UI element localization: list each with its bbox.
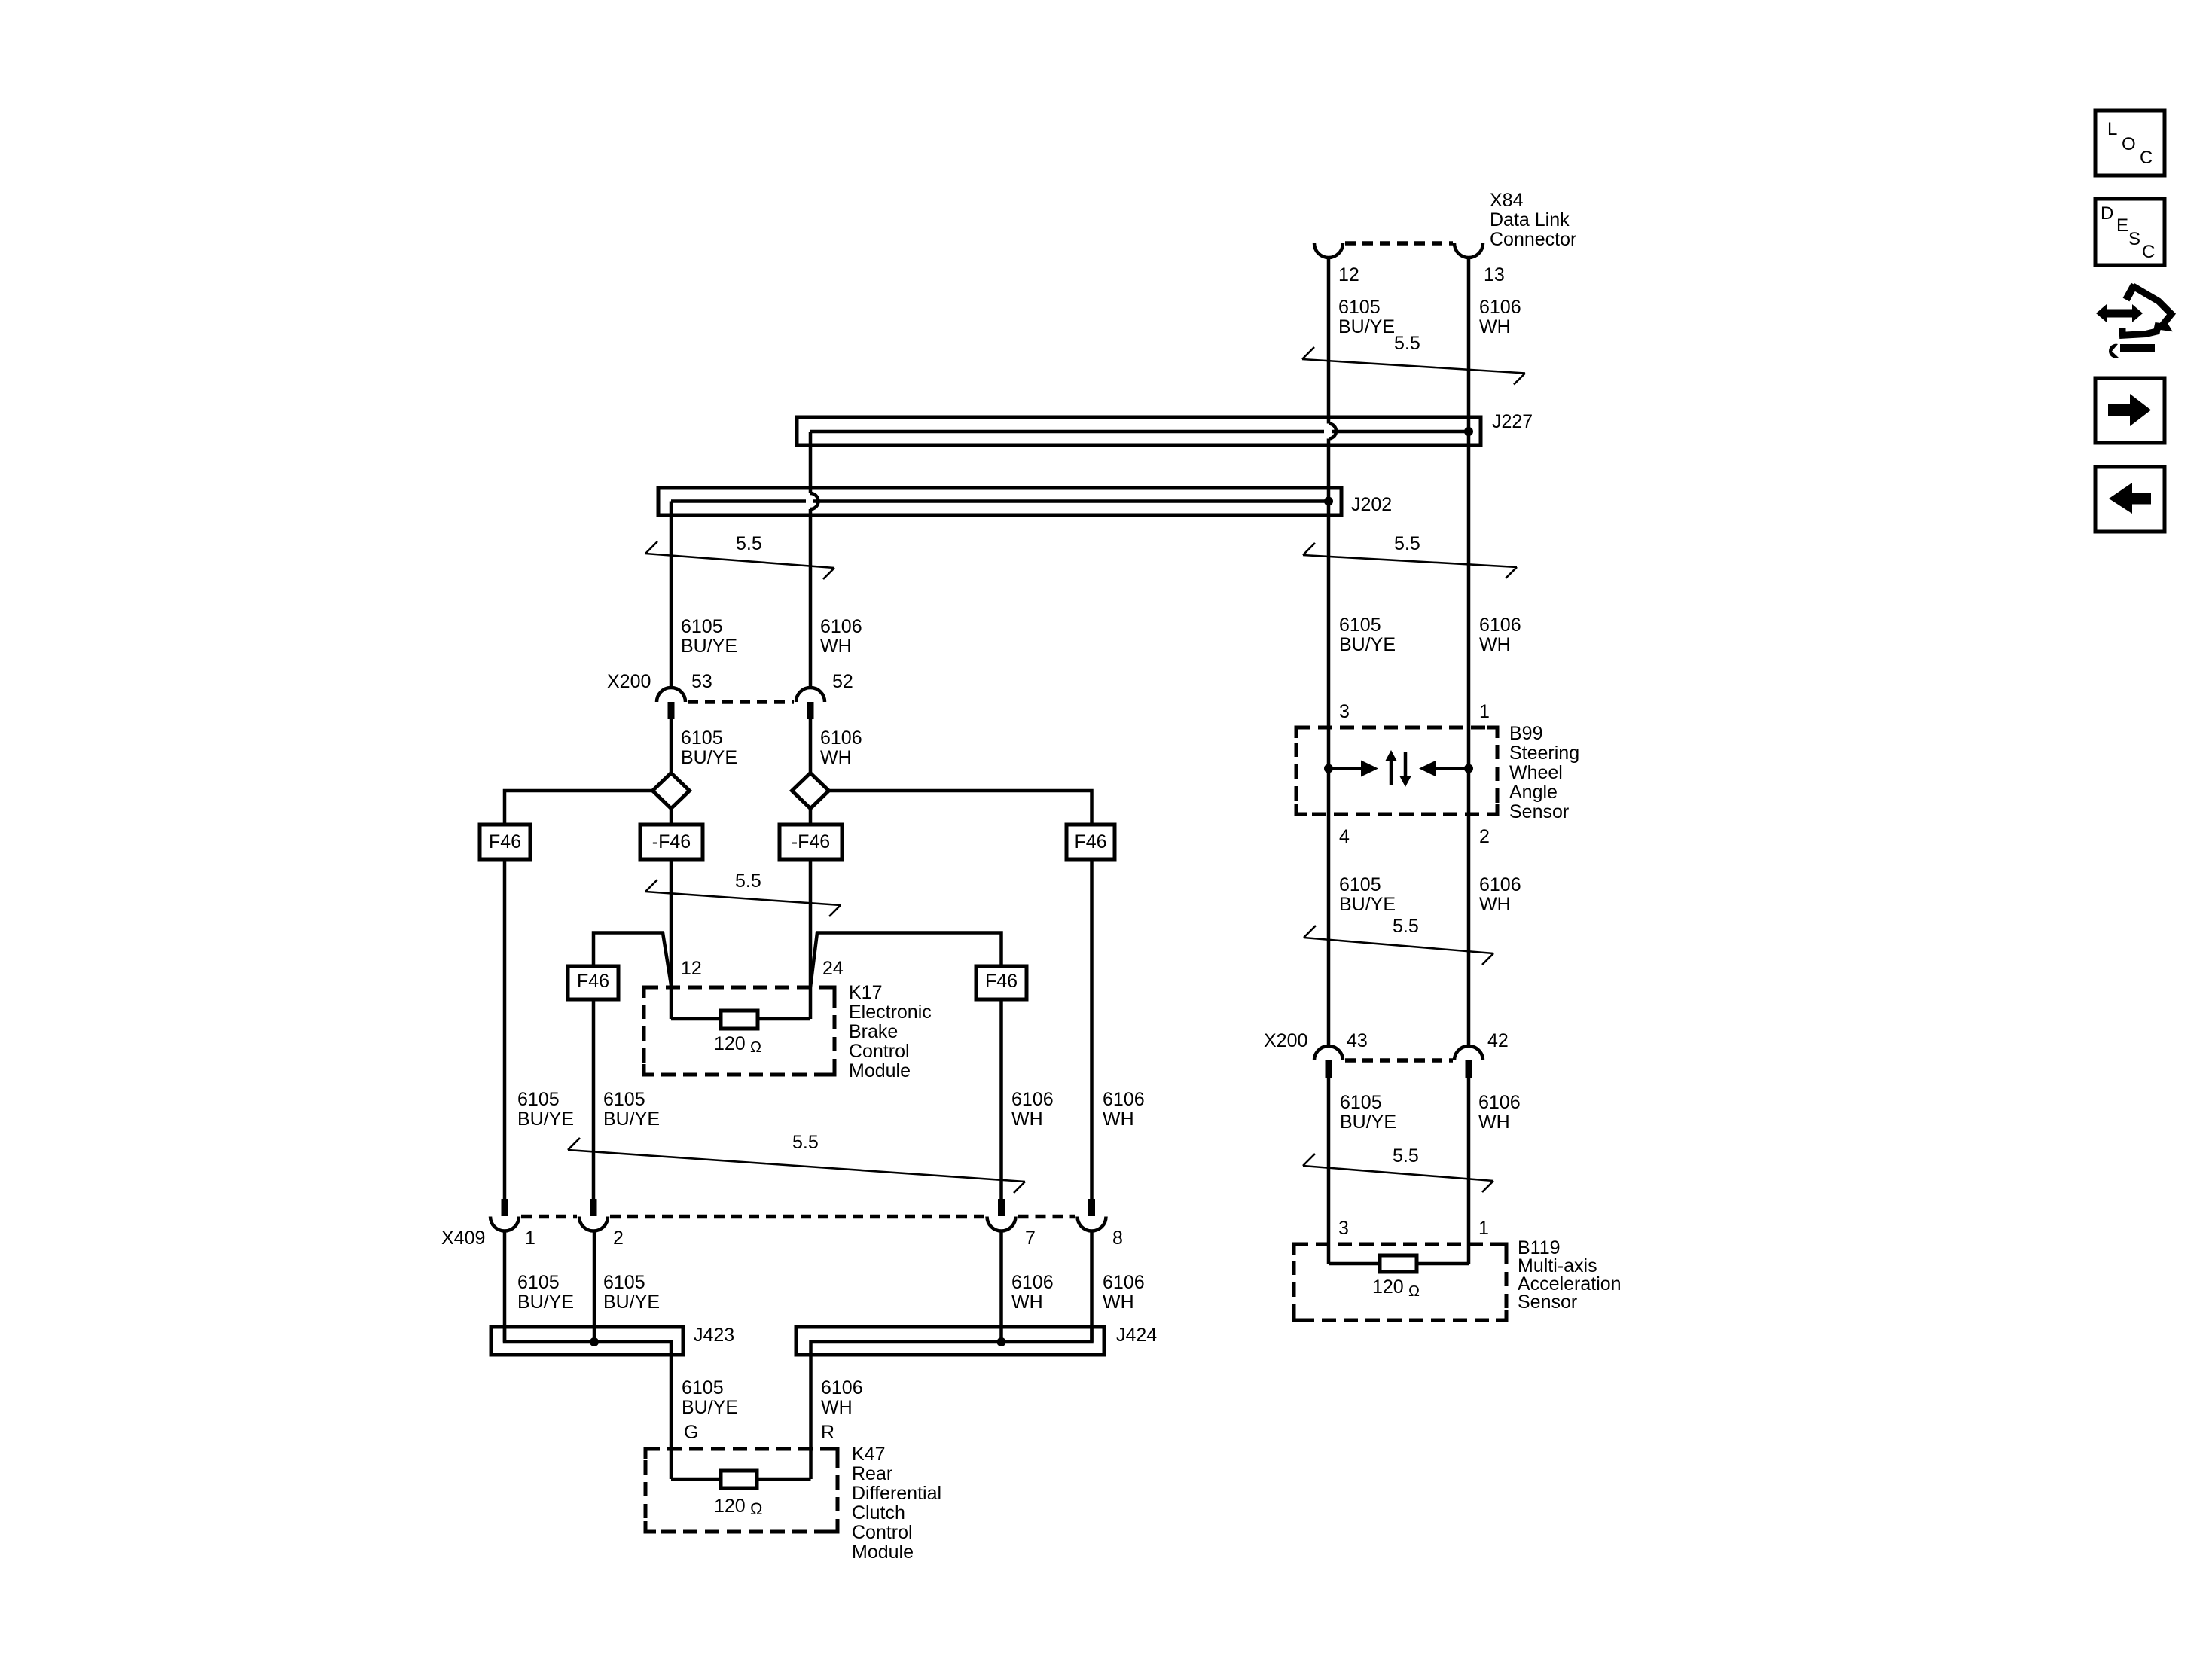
svg-text:D: D: [2101, 203, 2113, 224]
connector X200 terminal arc pin 53: [657, 688, 685, 702]
wire label 6106 WH (below X409 pin 8): [1103, 1272, 1145, 1313]
svg-text:BU/YE: BU/YE: [1338, 316, 1395, 337]
wire label 6105 BU/YE (left, above X200 53): [681, 616, 737, 657]
svg-text:52: 52: [832, 671, 853, 692]
connector X409 male pin 8: [1088, 1199, 1095, 1216]
gauge label 5.5 (X84 pair): [1394, 333, 1420, 354]
svg-text:7: 7: [1025, 1228, 1036, 1249]
svg-text:5.5: 5.5: [792, 1132, 819, 1153]
nav icon data-link/wrench: [2096, 285, 2171, 358]
wire 6105 G from J423 to K47: [670, 1355, 673, 1479]
pin number 53: [691, 671, 712, 692]
connector X409 male pin 2: [590, 1199, 597, 1216]
pin number 3 (B99): [1339, 701, 1350, 722]
svg-text:8: 8: [1112, 1228, 1123, 1249]
svg-text:C: C: [2142, 242, 2155, 262]
svg-text:2: 2: [613, 1228, 624, 1249]
svg-text:BU/YE: BU/YE: [681, 747, 737, 768]
wire label 6106 WH (X200 to B119): [1478, 1092, 1521, 1133]
junction dot B99 wire 1-2: [1464, 764, 1473, 773]
svg-text:6106: 6106: [1479, 615, 1521, 636]
wire label 6106 WH (above X409 pin 8): [1103, 1089, 1145, 1130]
splice bus J424 internal conductor: [811, 1327, 1092, 1355]
connector X200 dashed link line 43-42: [1345, 1058, 1453, 1063]
label J227: [1492, 411, 1533, 432]
connector X84 terminal arc pin 13: [1454, 243, 1483, 258]
wire from left diamond down to -F46: [670, 809, 673, 825]
svg-text:Control: Control: [849, 1041, 910, 1062]
svg-text:5.5: 5.5: [736, 533, 762, 554]
label B99 Steering Wheel Angle Sensor: [1509, 723, 1579, 822]
pin number 12 (K17): [681, 958, 702, 979]
pin number 42: [1487, 1030, 1509, 1051]
pin number 4 (B99): [1339, 826, 1350, 847]
svg-text:Control: Control: [852, 1522, 913, 1543]
svg-text:13: 13: [1484, 264, 1505, 285]
label F46 lower-left: [577, 971, 609, 992]
svg-text:G: G: [684, 1422, 698, 1443]
svg-text:43: 43: [1347, 1030, 1368, 1051]
gauge label 5.5 (below -F46): [735, 871, 761, 892]
svg-text:Ω: Ω: [1408, 1283, 1420, 1300]
wire X409 pin1 to J423: [503, 1231, 507, 1343]
label -F46 left: [652, 831, 691, 852]
wire label 6105 BU/YE (X200 to B119): [1340, 1092, 1396, 1133]
sensor B119 dashed outline: [1294, 1244, 1506, 1320]
pin number 1 (X409): [525, 1228, 535, 1249]
svg-text:3: 3: [1338, 1218, 1349, 1239]
wire size marker 5.5 (left pair below J202): [645, 541, 834, 579]
svg-text:6106: 6106: [1478, 1092, 1521, 1113]
terminating resistor inside K47: [671, 1471, 811, 1488]
svg-text:BU/YE: BU/YE: [1340, 1112, 1396, 1133]
label F46 lower-right: [985, 971, 1018, 992]
svg-text:K17: K17: [849, 982, 882, 1003]
label F46 outer-right: [1074, 831, 1106, 852]
pin number 43: [1347, 1030, 1368, 1051]
svg-text:X200: X200: [607, 671, 651, 692]
connector X200 male pin 52: [807, 702, 814, 719]
wire label 6106 WH (left, above X200 52): [820, 616, 862, 657]
svg-text:Ω: Ω: [750, 1039, 761, 1056]
pin number 12 (X84): [1338, 264, 1359, 285]
svg-text:O: O: [2122, 134, 2136, 154]
svg-text:BU/YE: BU/YE: [603, 1109, 660, 1130]
svg-text:WH: WH: [820, 747, 852, 768]
svg-text:E: E: [2116, 215, 2128, 236]
label B119 Multi-axis Acceleration Sensor: [1518, 1237, 1622, 1313]
sensor B99 dashed outline: [1296, 727, 1497, 814]
svg-text:6106: 6106: [821, 1377, 863, 1398]
svg-text:B99: B99: [1509, 723, 1542, 744]
gauge label 5.5 (above X409): [792, 1132, 819, 1153]
B99 internal down arrow: [1399, 752, 1411, 787]
value label 120 ohm (B119): [1372, 1276, 1420, 1300]
svg-text:5.5: 5.5: [1393, 916, 1419, 937]
wire label 6106 WH R (J424 to K47): [821, 1377, 863, 1443]
splice diamond on wire 6106: [792, 773, 829, 809]
B99 internal up arrow: [1385, 750, 1397, 785]
pin number 8 (X409): [1112, 1228, 1123, 1249]
svg-text:6105: 6105: [1339, 615, 1381, 636]
svg-text:6105: 6105: [681, 727, 723, 749]
wire from lower-right F46 down to X409 pin 7: [999, 999, 1003, 1199]
svg-text:6106: 6106: [1479, 297, 1521, 318]
svg-text:Electronic: Electronic: [849, 1002, 932, 1023]
wire from outer-left F46 down to X409 pin 1: [503, 859, 507, 1199]
svg-text:Module: Module: [849, 1060, 911, 1081]
gauge label 5.5 (left pair): [736, 533, 762, 554]
wire label 6105 BU/YE (above X409 pin 2): [603, 1089, 660, 1130]
nav icon box LOC: [2095, 111, 2165, 175]
wire size marker 5.5 (below -F46 pair): [645, 880, 841, 916]
connector X409 terminal arc pin 8: [1078, 1217, 1106, 1231]
connector X84 dashed link line: [1345, 241, 1453, 246]
svg-text:WH: WH: [1103, 1292, 1134, 1313]
connector X409 male pin 1: [502, 1199, 508, 1216]
svg-text:53: 53: [691, 671, 712, 692]
svg-text:C: C: [2140, 148, 2153, 168]
splice bus J202 internal conductor: [671, 499, 1329, 503]
wire 6106 right branch J227 to B99 pin 1 and on to X200 42: [1467, 432, 1471, 1046]
svg-text:WH: WH: [1479, 894, 1511, 915]
svg-text:1: 1: [1478, 1218, 1489, 1239]
module K17 dashed outline: [644, 987, 834, 1075]
svg-text:F46: F46: [985, 971, 1018, 992]
svg-text:WH: WH: [821, 1397, 853, 1418]
svg-text:1: 1: [525, 1228, 535, 1249]
svg-text:120: 120: [1372, 1276, 1404, 1298]
wire size marker 5.5 (X84 pair): [1302, 347, 1525, 385]
branch wire from left diamond to outer-left fuse F46: [505, 791, 653, 825]
value label 120 ohm (K17): [714, 1033, 761, 1056]
fuse box F46 lower-right: [976, 966, 1027, 999]
label connector X200 (43/42): [1264, 1030, 1307, 1051]
svg-text:6106: 6106: [820, 727, 862, 749]
wire X409 pin8 to J424: [1090, 1231, 1094, 1343]
wire size marker 5.5 (above B119): [1303, 1154, 1493, 1192]
svg-text:WH: WH: [1011, 1109, 1043, 1130]
wire label 6106 WH (below X200 52): [820, 727, 862, 768]
svg-text:6105: 6105: [517, 1089, 560, 1110]
wire size marker 5.5 (right pair below J202): [1303, 543, 1517, 578]
wire 6105 X200 43 down to B119 pin 3: [1327, 1078, 1331, 1264]
svg-text:6106: 6106: [1103, 1089, 1145, 1110]
connector X200 terminal arc pin 52: [796, 688, 825, 702]
svg-text:6106: 6106: [1479, 874, 1521, 895]
svg-text:Sensor: Sensor: [1509, 801, 1569, 822]
junction dot J227 to wire 6106: [1464, 427, 1473, 436]
wire 6106 WH from X84 pin 13 down to J227: [1467, 258, 1471, 432]
svg-text:K47: K47: [852, 1444, 885, 1465]
fuse box F46 lower-left: [568, 966, 618, 999]
branch wire from right diamond to outer-right fuse F46: [829, 791, 1092, 825]
connector X409 terminal arc pin 2: [579, 1217, 608, 1231]
svg-text:6105: 6105: [1340, 1092, 1382, 1113]
label F46 outer-left: [489, 831, 521, 852]
wire 6106 R from J424 to K47: [809, 1355, 813, 1479]
wire label 6106 WH (above X409 pin 7): [1011, 1089, 1054, 1130]
wire label 6105 BU/YE (below X409 pin 2): [603, 1272, 660, 1313]
label X84 Data Link Connector: [1490, 190, 1576, 250]
junction dot J424: [997, 1337, 1006, 1346]
svg-text:Ω: Ω: [750, 1499, 762, 1518]
branch wire splice into K17 pin 12 (funnel): [593, 933, 672, 988]
svg-text:J423: J423: [694, 1325, 734, 1346]
fuse box -F46 on wire 6105: [640, 825, 703, 859]
svg-text:Connector: Connector: [1490, 229, 1576, 250]
wire 6105 BU/YE from X200 53 to diamond: [670, 719, 673, 773]
wire 6105 BU/YE from X84 pin 12 down to J202: [1327, 258, 1331, 502]
svg-text:42: 42: [1487, 1030, 1509, 1051]
connector X200 terminal arc pin 42: [1454, 1046, 1483, 1060]
svg-text:6105: 6105: [603, 1089, 645, 1110]
junction dot B99 wire 3-4: [1324, 764, 1333, 773]
svg-text:L: L: [2107, 119, 2117, 139]
wire 6106 WH left drop from J227 to J202: [809, 432, 813, 688]
wire 6106 from -F46 down to K17 pin 24: [809, 859, 813, 1019]
svg-text:Brake: Brake: [849, 1021, 898, 1042]
splice bus J423 internal conductor: [505, 1327, 671, 1355]
module K47 dashed outline: [645, 1449, 838, 1532]
connector X409 terminal arc pin 1: [490, 1217, 519, 1231]
gauge label 5.5 (right pair): [1394, 533, 1420, 554]
wire X409 pin7 to J424: [999, 1231, 1003, 1343]
wire 6105 BU/YE left drop from J202 to X200 pin 53: [670, 502, 673, 688]
svg-text:6105: 6105: [1339, 874, 1381, 895]
svg-text:12: 12: [681, 958, 702, 979]
terminating resistor inside K17: [671, 1011, 810, 1029]
pin number 24 (K17): [822, 958, 844, 979]
svg-text:6106: 6106: [1011, 1272, 1054, 1293]
svg-text:4: 4: [1339, 826, 1350, 847]
svg-text:BU/YE: BU/YE: [517, 1292, 574, 1313]
wire label 6105 BU/YE (right, above B99): [1339, 615, 1396, 655]
svg-text:Wheel: Wheel: [1509, 762, 1563, 783]
pin number 52: [832, 671, 853, 692]
svg-text:120: 120: [714, 1496, 746, 1517]
wire X409 pin2 to J423: [593, 1231, 596, 1343]
svg-text:5.5: 5.5: [1393, 1145, 1419, 1167]
junction dot J202 to wire 6105: [1324, 497, 1333, 506]
gauge label 5.5 (above B119): [1393, 1145, 1419, 1167]
pin number 1 (B119): [1478, 1218, 1489, 1239]
wire label 6105 BU/YE G (J423 to K47): [682, 1377, 738, 1443]
splice bus J227 outline: [797, 417, 1481, 445]
wire hop of 6105 over J227 bus line: [1329, 424, 1336, 439]
B99 internal left-pointing arrow: [1419, 761, 1469, 777]
svg-text:Differential: Differential: [852, 1483, 941, 1504]
svg-text:WH: WH: [1103, 1109, 1134, 1130]
svg-text:WH: WH: [1479, 634, 1511, 655]
svg-text:-F46: -F46: [792, 831, 830, 852]
svg-text:6106: 6106: [1011, 1089, 1054, 1110]
svg-text:6105: 6105: [517, 1272, 560, 1293]
svg-text:X200: X200: [1264, 1030, 1307, 1051]
svg-text:6105: 6105: [681, 616, 723, 637]
wire label 6106 WH (below X409 pin 7): [1011, 1272, 1054, 1313]
nav icon box arrow-right: [2095, 378, 2165, 443]
svg-text:X409: X409: [441, 1228, 485, 1249]
wire from right diamond down to -F46: [809, 809, 813, 825]
svg-text:F46: F46: [1074, 831, 1106, 852]
svg-text:24: 24: [822, 958, 844, 979]
svg-text:Module: Module: [852, 1542, 914, 1563]
svg-text:5.5: 5.5: [1394, 333, 1420, 354]
wire from lower-left F46 down to X409 pin 2: [592, 999, 596, 1199]
wire from outer-right F46 down to X409 pin 8: [1090, 859, 1094, 1199]
svg-text:Sensor: Sensor: [1518, 1292, 1577, 1313]
pin number 1 (B99): [1479, 701, 1490, 722]
pin number 7 (X409): [1025, 1228, 1036, 1249]
label -F46 right: [792, 831, 830, 852]
svg-text:R: R: [821, 1422, 834, 1443]
B99 internal right-pointing arrow: [1329, 761, 1378, 777]
svg-text:12: 12: [1338, 264, 1359, 285]
svg-text:WH: WH: [1011, 1292, 1043, 1313]
nav icon box arrow-left: [2095, 467, 2165, 532]
wire label 6105 BU/YE (above X409 pin 1): [517, 1089, 574, 1130]
wire 6105 right branch J202 to B99 pin 3 and on to X200 43: [1327, 502, 1331, 1047]
wire 6106 WH from X200 52 to diamond: [809, 719, 813, 773]
svg-text:F46: F46: [489, 831, 521, 852]
pin number 3 (B119): [1338, 1218, 1349, 1239]
svg-text:2: 2: [1479, 826, 1490, 847]
label J202: [1351, 494, 1392, 515]
terminating resistor inside B119: [1329, 1255, 1469, 1272]
svg-text:WH: WH: [1479, 316, 1511, 337]
value label 120 ohm (K47): [714, 1496, 762, 1518]
svg-text:WH: WH: [820, 636, 852, 657]
svg-text:5.5: 5.5: [1394, 533, 1420, 554]
wire label 6105 BU/YE (right, B99 to X200): [1339, 874, 1396, 915]
svg-text:6105: 6105: [1338, 297, 1381, 318]
splice bus J227 internal conductor: [810, 430, 1469, 434]
pin number 2 (X409): [613, 1228, 624, 1249]
wire 6105 from -F46 down to K17 pin 12: [670, 859, 673, 1019]
svg-text:6106: 6106: [1103, 1272, 1145, 1293]
splice bus J424 outline: [796, 1327, 1104, 1355]
svg-text:BU/YE: BU/YE: [1339, 634, 1396, 655]
label K17 Electronic Brake Control Module: [849, 982, 932, 1081]
svg-text:S: S: [2128, 229, 2140, 249]
wire label 6106 WH (right, above B99): [1479, 615, 1521, 655]
nav icon box DESC: [2095, 199, 2165, 265]
wire hop of 6106 over J202 bus line: [810, 493, 818, 509]
fuse box F46 outer-right: [1066, 825, 1115, 859]
wire label 6105 BU/YE (below X84): [1338, 297, 1395, 337]
label connector X409: [441, 1228, 485, 1249]
svg-text:Angle: Angle: [1509, 782, 1558, 803]
svg-text:J227: J227: [1492, 411, 1533, 432]
svg-text:J424: J424: [1116, 1325, 1157, 1346]
connector X200 terminal arc pin 43: [1314, 1046, 1343, 1060]
connector X200 dashed link line 53-52: [688, 700, 794, 704]
svg-text:BU/YE: BU/YE: [517, 1109, 574, 1130]
splice bus J423 outline: [491, 1327, 683, 1355]
connector X200 male pin 53: [668, 702, 675, 719]
splice diamond on wire 6105: [653, 773, 690, 809]
svg-text:F46: F46: [577, 971, 609, 992]
svg-text:Rear: Rear: [852, 1463, 892, 1484]
wire label 6105 BU/YE (below X200 53): [681, 727, 737, 768]
svg-text:BU/YE: BU/YE: [1339, 894, 1396, 915]
svg-text:J202: J202: [1351, 494, 1392, 515]
wire label 6106 WH (below X84): [1479, 297, 1521, 337]
wire label 6105 BU/YE (below X409 pin 1): [517, 1272, 574, 1313]
gauge label 5.5 (below B99 pair): [1393, 916, 1419, 937]
connector X409 dashed link line: [521, 1215, 1075, 1219]
svg-text:Data Link: Data Link: [1490, 209, 1570, 230]
wire label 6106 WH (right, B99 to X200): [1479, 874, 1521, 915]
label connector X200 (53/52): [607, 671, 651, 692]
junction dot J423: [590, 1337, 599, 1346]
svg-text:6105: 6105: [603, 1272, 645, 1293]
label J424: [1116, 1325, 1157, 1346]
svg-text:BU/YE: BU/YE: [681, 636, 737, 657]
svg-text:WH: WH: [1478, 1112, 1510, 1133]
label J423: [694, 1325, 734, 1346]
svg-text:1: 1: [1479, 701, 1490, 722]
fuse box -F46 on wire 6106: [780, 825, 842, 859]
connector X409 male pin 7: [998, 1199, 1005, 1216]
fuse box F46 outer-left: [480, 825, 530, 859]
svg-text:BU/YE: BU/YE: [603, 1292, 660, 1313]
svg-text:3: 3: [1339, 701, 1350, 722]
branch wire splice into K17 pin 24 (funnel): [810, 933, 1002, 988]
connector X409 terminal arc pin 7: [987, 1217, 1016, 1231]
svg-text:BU/YE: BU/YE: [682, 1397, 738, 1418]
splice bus J202 outline: [658, 488, 1341, 515]
svg-text:-F46: -F46: [652, 831, 691, 852]
svg-text:5.5: 5.5: [735, 871, 761, 892]
svg-text:6105: 6105: [682, 1377, 724, 1398]
label K47 Rear Differential Clutch Control Module: [852, 1444, 941, 1563]
wire size marker 5.5 (below B99): [1304, 926, 1493, 965]
svg-text:6106: 6106: [820, 616, 862, 637]
svg-text:Clutch: Clutch: [852, 1502, 905, 1523]
svg-text:X84: X84: [1490, 190, 1524, 211]
wire size marker 5.5 (above X409): [568, 1138, 1025, 1193]
svg-text:120: 120: [714, 1033, 746, 1054]
svg-text:Steering: Steering: [1509, 743, 1579, 764]
pin number 13 (X84): [1484, 264, 1505, 285]
pin number 2 (B99): [1479, 826, 1490, 847]
connector X200 male pin 42: [1466, 1060, 1472, 1078]
connector X84 terminal arc pin 12: [1314, 243, 1343, 258]
wire 6106 X200 42 down to B119 pin 1: [1467, 1078, 1471, 1264]
connector X200 male pin 43: [1326, 1060, 1332, 1078]
